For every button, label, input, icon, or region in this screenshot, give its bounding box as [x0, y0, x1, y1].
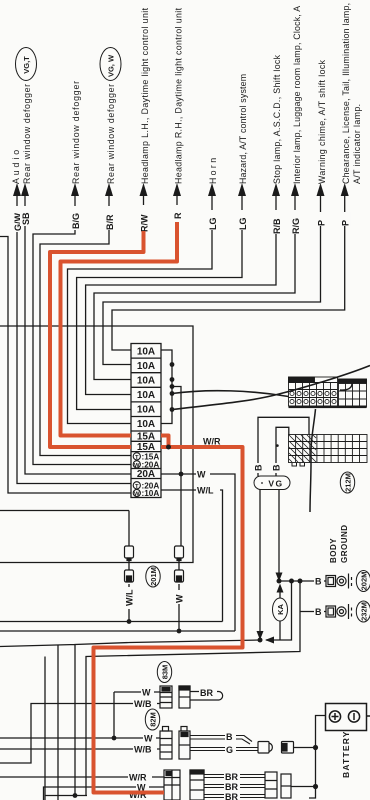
svg-text:10A: 10A — [137, 376, 155, 387]
svg-text:15A: 15A — [137, 442, 155, 453]
Z wire page left to 83M W/B — [0, 704, 160, 764]
wire from dot C down to ground row2 and page left — [86, 581, 300, 796]
wire R/B to stop lamp — [86, 205, 276, 395]
oval 232M — [356, 601, 370, 622]
83M right connector with BR jumper loop — [179, 686, 223, 708]
label B left — [253, 463, 264, 473]
group3 labels W/R W W/R — [128, 772, 152, 783]
arrow down into junction J — [257, 631, 264, 640]
BR wires bottom right — [204, 775, 265, 798]
svg-text:R/B: R/B — [272, 218, 282, 234]
svg-text:Stop lamp, A.S.C.D., Shift loc: Stop lamp, A.S.C.D., Shift lock — [272, 54, 282, 184]
grid connector upper (engine harness) — [289, 377, 367, 408]
connector oval VG,W — [100, 48, 121, 81]
svg-text:P: P — [317, 220, 327, 226]
svg-text:W/B: W/B — [134, 745, 152, 755]
svg-text:W: W — [142, 688, 151, 698]
svg-text:VG,T: VG,T — [22, 56, 31, 74]
svg-text:G: G — [226, 745, 233, 755]
label W/L at fuse output — [196, 484, 220, 496]
label W/B 82M — [133, 744, 157, 755]
junction dot B — [289, 579, 294, 584]
wire B/R to rear window defogger — [40, 205, 131, 456]
wire from page left edge into fuse row — [0, 237, 131, 494]
junction dot x114 on 738 — [112, 736, 117, 741]
wire from VG right down to ground junction — [278, 490, 280, 575]
svg-text:Headlamp R.H., Daytime light c: Headlamp R.H., Daytime light control uni… — [174, 7, 184, 184]
wire LG to hazard — [77, 205, 242, 410]
junction dot C — [298, 579, 303, 584]
svg-text:R/G: R/G — [291, 218, 301, 234]
svg-text:W: W — [144, 734, 153, 744]
svg-text:BR: BR — [225, 792, 238, 800]
svg-text:A/T indicator lamp.: A/T indicator lamp. — [352, 104, 362, 184]
82M right connector — [179, 727, 190, 760]
svg-text:W/R: W/R — [129, 773, 147, 783]
connector oval KA — [273, 598, 288, 621]
wire B/G to rear window defogger — [33, 205, 131, 465]
W/L plug lower — [125, 570, 134, 582]
highlighted circuit R/W headlamp LH (orange) — [50, 231, 144, 447]
oval 83M — [157, 662, 171, 683]
svg-text:Audio: Audio — [11, 150, 21, 184]
junction dot battery wire 2 — [313, 784, 318, 789]
wire page left to group3 W/R row — [0, 776, 164, 778]
wire page left to 82M W/B row — [0, 748, 160, 750]
hook wire on right grid block — [340, 384, 352, 391]
asterisk mark — [276, 444, 279, 447]
svg-text:Interior lamp, Luggage room la: Interior lamp, Luggage room lamp, Clock,… — [292, 6, 302, 184]
wire from VG left down to junction — [259, 490, 261, 634]
wire B no.1 from grid2 to VG — [258, 417, 309, 476]
svg-text:B/G: B/G — [71, 213, 81, 229]
svg-text:LG: LG — [208, 218, 218, 231]
svg-text:B/R: B/R — [105, 214, 115, 230]
fuse block — [131, 344, 161, 498]
body ground horizontal row1 — [279, 580, 326, 582]
group3 right connector — [190, 770, 204, 800]
label B 82M out — [225, 731, 236, 742]
connector oval VG — [254, 476, 290, 490]
svg-text:10A: 10A — [137, 346, 155, 357]
arrowheads of top branch circuits — [13, 183, 349, 196]
svg-text:R: R — [173, 212, 183, 219]
svg-text:BATTERY: BATTERY — [341, 730, 351, 778]
svg-text:W/L: W/L — [197, 486, 214, 496]
svg-text:B: B — [315, 577, 322, 587]
svg-text:W/R: W/R — [203, 437, 221, 447]
grid connector lower 212M — [289, 435, 368, 467]
arrow down into ground junction — [276, 573, 283, 582]
junction dot W/L on L1 — [127, 619, 132, 624]
wire long horizontal bus to vertical drop — [0, 326, 193, 563]
svg-text:R/W: R/W — [140, 214, 150, 232]
hand drawn wire from fuse row5 across grid connector to page edge — [172, 366, 370, 410]
svg-text:VG: VG — [268, 479, 283, 489]
connector oval VG,T — [16, 48, 37, 81]
BODY GROUND rotated text — [329, 524, 349, 563]
junction J dot — [258, 638, 263, 643]
wire G/W to Audio — [17, 205, 131, 484]
wire P to clearance tail lamps — [112, 205, 345, 350]
branch destination texts — [11, 3, 362, 184]
svg-text:W/B: W/B — [134, 699, 152, 709]
B G wires from 82M to battery connector — [190, 736, 258, 751]
battery positive feed wire — [309, 716, 326, 799]
highlighted fuse outputs 15A join (orange) — [161, 436, 169, 448]
83M left connector — [160, 686, 172, 708]
svg-text:KA: KA — [276, 604, 285, 615]
W fuse output wire with loop to lower bus — [161, 474, 235, 631]
svg-text:W: W — [197, 470, 206, 480]
W/L connector drop below split — [128, 511, 130, 622]
svg-text:B: B — [254, 464, 264, 471]
W connector drop below split — [179, 474, 181, 631]
svg-text:BODY: BODY — [329, 538, 338, 563]
svg-text:Rear window defogger: Rear window defogger — [71, 81, 81, 184]
svg-text:10A: 10A — [137, 419, 155, 430]
svg-text:10A: 10A — [137, 405, 155, 416]
battery feed connector pair — [258, 742, 316, 754]
svg-text:BR: BR — [225, 772, 238, 782]
label W/R on orange trunk — [203, 437, 221, 447]
hand drawn wire from fuse row4 to grid connector — [172, 391, 289, 397]
junction dot battery wire 1 — [313, 745, 318, 750]
wire vertical x58 — [57, 645, 59, 800]
wire group3 W row with corner — [44, 787, 165, 800]
label B ground row2 — [314, 607, 324, 618]
KA top arrow up — [279, 589, 281, 598]
svg-text:SB: SB — [21, 212, 31, 225]
svg-text:10A: 10A — [137, 361, 155, 372]
label BR jumper — [199, 687, 217, 698]
wire B no.2 from grid2 to VG — [276, 427, 289, 476]
wire from J to page left dropping corner — [0, 640, 260, 796]
ground terminal row2 — [326, 604, 352, 619]
svg-text:BR: BR — [200, 688, 213, 698]
rotated label W/L at lower plug — [124, 587, 135, 609]
svg-text:232M: 232M — [360, 602, 369, 621]
label B ground row1 — [314, 576, 324, 587]
wire page left to 82M W row — [0, 737, 160, 739]
label W 82M — [143, 733, 156, 744]
oval 82M — [145, 709, 159, 730]
bus line L1 — [0, 621, 223, 623]
svg-text:BR: BR — [225, 782, 238, 792]
svg-text:83M: 83M — [161, 665, 170, 680]
label W 83M — [141, 687, 154, 698]
label W/B 83M — [133, 699, 157, 710]
junction dot W on L2 — [177, 629, 182, 634]
svg-text:20A: 20A — [137, 469, 155, 480]
wire from dot B down to KA junction line — [266, 581, 292, 640]
oval 202M — [356, 571, 370, 592]
label W at fuse output — [196, 468, 210, 480]
W/L plug upper — [125, 546, 134, 561]
junction dot A — [277, 579, 282, 584]
wire colour code labels — [11, 206, 351, 234]
svg-text:W: W — [134, 492, 140, 498]
wire R/G to interior lamp — [94, 205, 295, 380]
ground terminal row1 — [326, 574, 352, 589]
svg-text:Chearance, License, Tail, Illu: Chearance, License, Tail, Illumination l… — [341, 3, 351, 184]
label B right — [271, 463, 282, 473]
svg-text:VG, W: VG, W — [107, 54, 116, 77]
svg-text:10A: 10A — [137, 390, 155, 401]
rotated label W at lower plug — [174, 590, 185, 604]
BR collector connectors — [265, 772, 316, 798]
fuse T:15A W:20A — [133, 452, 159, 469]
wire vertical x45 — [44, 657, 46, 800]
bus line L2 — [0, 630, 235, 632]
svg-text:GROUND: GROUND — [340, 524, 349, 563]
oval 212M — [340, 472, 354, 493]
junction dots on bus — [170, 362, 175, 412]
svg-text:B: B — [272, 464, 282, 471]
bottom junction horizontal — [45, 795, 87, 797]
svg-text:B: B — [226, 732, 233, 742]
wire P to warning chime — [103, 205, 321, 365]
svg-text:212M: 212M — [344, 473, 353, 492]
highlighted W/R trunk wire (orange) — [94, 447, 243, 793]
fuse output bus right side — [161, 350, 181, 474]
arrowhead left into junction J — [265, 637, 274, 644]
battery — [326, 704, 370, 731]
svg-text:W: W — [175, 594, 185, 603]
wavy drop wire from upper grid down — [310, 409, 316, 512]
svg-text::10A: :10A — [142, 489, 160, 498]
svg-text:Rear window defogger: Rear window defogger — [22, 84, 32, 184]
svg-text:Rear window defogger: Rear window defogger — [106, 84, 116, 184]
svg-text:Horn: Horn — [208, 158, 218, 184]
terminal circles in upper grid — [290, 391, 336, 403]
W plug upper — [175, 546, 184, 561]
svg-text:Warning chime, A/T shift lock: Warning chime, A/T shift lock — [317, 59, 327, 184]
group3 left connector — [164, 770, 180, 800]
highlighted circuit R headlamp RH (orange) — [61, 222, 178, 436]
svg-text:P: P — [341, 220, 351, 226]
fuse T:20A W:10A — [133, 481, 159, 498]
svg-text:B: B — [315, 607, 322, 617]
82M left connector — [160, 727, 172, 760]
svg-text:W/L: W/L — [125, 589, 135, 606]
junction dot 15A outputs — [166, 445, 171, 450]
svg-text:82M: 82M — [149, 712, 158, 727]
svg-text:LG: LG — [238, 218, 248, 231]
KA bottom wire — [279, 621, 281, 640]
svg-text:201M: 201M — [149, 567, 158, 586]
junction dot 20A output — [179, 472, 184, 477]
wire from page left at y510 to W/L connector — [0, 510, 129, 512]
svg-text:T: T — [135, 455, 139, 461]
W/L fuse output wire — [161, 490, 223, 622]
wire SB to rear window defogger — [25, 205, 131, 474]
wire LG to horn — [68, 205, 213, 424]
junction dot bottom left — [73, 793, 78, 798]
oval 201M — [146, 566, 160, 587]
svg-text:Headlamp L.H., Daytime light c: Headlamp L.H., Daytime light control uni… — [140, 7, 150, 184]
svg-text:202M: 202M — [360, 572, 369, 591]
svg-text:Hazard, A/T control system: Hazard, A/T control system — [238, 74, 248, 184]
label G 82M out — [225, 744, 236, 755]
W plug lower — [175, 570, 184, 582]
wire x114 feeding 83M W and 82M W — [114, 692, 160, 738]
